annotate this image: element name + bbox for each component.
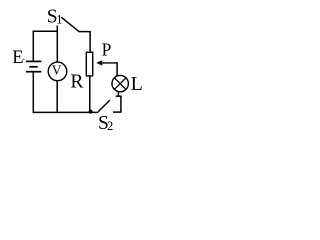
svg-text:P: P	[102, 40, 112, 60]
svg-text:R: R	[70, 71, 83, 92]
wire wiper down to lamp	[116, 62, 118, 76]
battery short plate	[29, 66, 37, 68]
rheostat bottom wire	[89, 76, 91, 113]
junction dot	[89, 110, 93, 114]
wire lamp bottom stub	[117, 91, 119, 96]
svg-text:2: 2	[107, 119, 113, 133]
svg-text:L: L	[131, 73, 143, 95]
voltmeter branch lower wire	[56, 80, 58, 112]
rheostat wiper arrow P	[101, 62, 117, 64]
rheostat R body	[86, 52, 92, 76]
voltmeter V circle	[48, 62, 67, 81]
switch S2 fixed contact tick	[116, 95, 122, 97]
lamp L circle	[112, 75, 128, 91]
wire left vertical (battery to bottom)	[32, 72, 34, 113]
battery E cell: top plate (long)	[26, 60, 42, 62]
svg-text:1: 1	[56, 12, 62, 26]
wire right-top vertical to rheostat	[89, 32, 91, 53]
switch S2 blade	[98, 100, 110, 112]
switch S1 left contact tick	[56, 26, 58, 32]
wire left vertical (top, to battery)	[32, 31, 34, 61]
wire bottom horizontal	[33, 111, 99, 113]
lamp X cross	[115, 78, 126, 89]
svg-text:E: E	[12, 48, 23, 68]
wire S2 right horizontal	[113, 111, 122, 113]
wire top-right horizontal	[79, 31, 91, 33]
svg-text:V: V	[52, 62, 62, 77]
wire top-left horizontal	[33, 30, 58, 32]
wire S2 right vertical	[120, 96, 122, 112]
speck artifact after E	[23, 59, 25, 61]
switch S1 blade	[61, 17, 78, 31]
battery bottom plate (long)	[26, 71, 42, 73]
voltmeter branch upper wire (tick above + down to meter)	[56, 31, 58, 62]
